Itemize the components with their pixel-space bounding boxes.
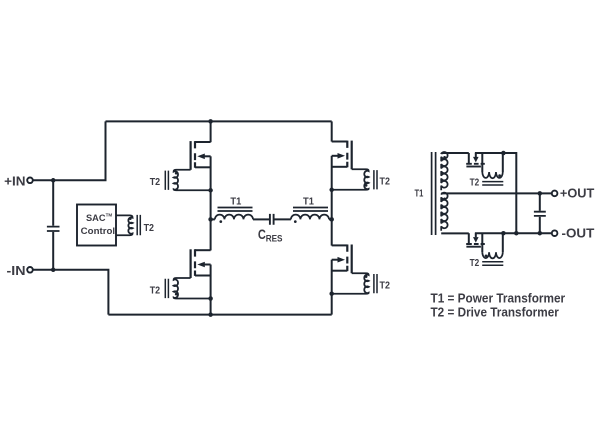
transformer T2 gate winding of Q1 (top-left) (165, 170, 210, 191)
wire top rail (106, 120, 332, 122)
transformer T1 secondary winding lower (441, 193, 447, 231)
wire secondary bottom tap (441, 232, 469, 234)
transformer T2 gate winding of Q3 (top-right) (332, 169, 377, 190)
wire centre tap to +OUT (441, 192, 552, 194)
svg-text:T1: T1 (230, 196, 241, 207)
transistor Q3 (top-right) MOSFET (332, 141, 352, 170)
transformer T2 gate winding of Q2 (bottom-left) (165, 278, 210, 299)
transformer T2 gate winding of Q6 (bottom sync rectifier) (482, 233, 503, 265)
svg-text:-IN: -IN (7, 263, 26, 278)
wire -IN to bottom-left corner (33, 270, 108, 315)
wire secondary top tap (441, 153, 469, 154)
junction Q1 (top-left) source / T2 return (208, 188, 213, 193)
capacitor input C (47, 180, 60, 269)
svg-text:-OUT: -OUT (562, 226, 595, 240)
transformer T1 primary right winding (291, 196, 332, 223)
capacitor output C (534, 193, 546, 233)
SAC control block U1 (77, 205, 116, 246)
svg-text:T2: T2 (150, 285, 160, 296)
label T2 (Q1 (top-left) drive) (150, 177, 160, 188)
transformer T1 primary left winding (211, 196, 253, 223)
junction top rail / Q1 drain (208, 119, 213, 124)
transformer T2 gate winding of Q4 (bottom-right) (332, 273, 377, 294)
wire Q3 source to right mid node (331, 156, 333, 220)
junction Q6 (bottom sync rectifier) wire / T2 return (501, 231, 506, 236)
wire Q3 drain from top rail (331, 121, 333, 141)
wire Q4 source to bottom rail (331, 260, 333, 315)
label legend line 2 (431, 305, 559, 320)
junction +IN / input cap (51, 178, 56, 183)
node -IN terminal (7, 263, 33, 278)
junction Q3 (top-right) source / T2 return (329, 188, 334, 193)
label T2 (Q3 (top-right) drive) (380, 177, 390, 188)
junction -OUT rail / output cap (538, 231, 543, 236)
junction Q4 (bottom-right) source / T2 return (329, 291, 334, 296)
junction bottom rail / Q2 source (208, 312, 213, 317)
svg-text:T2: T2 (150, 177, 160, 188)
junction node A (left mid) (208, 217, 213, 222)
wire T1 left to C_RES (253, 218, 269, 220)
label T2 (Q4 (bottom-right) drive) (380, 281, 390, 292)
node +IN terminal (4, 173, 33, 188)
node -OUT terminal (552, 226, 595, 240)
transistor Q4 (bottom-right) MOSFET (332, 245, 352, 274)
junction -IN / input cap (51, 268, 56, 273)
svg-text:T2: T2 (380, 281, 390, 292)
transformer T1 core (415, 152, 436, 235)
wire -OUT rail (475, 232, 552, 234)
svg-text:T2: T2 (470, 178, 480, 189)
wire C_RES to T1 right (275, 218, 291, 220)
label T2 (Q6 (bottom sync rectifier) drive) (470, 258, 480, 269)
wire Q1 drain from top rail (210, 121, 212, 142)
transistor Q6 (bottom sync rectifier) MOSFET (466, 233, 485, 247)
wire Q5 source to right drop (475, 153, 516, 233)
wire bottom rail (108, 314, 331, 316)
label legend line 1 (431, 290, 566, 305)
svg-text:SAC: SAC (86, 213, 106, 224)
junction Q5 (top sync rectifier) wire / T2 return (501, 151, 506, 156)
transformer T1 secondary winding upper (441, 152, 447, 190)
junction +OUT / output cap (538, 191, 543, 196)
svg-text:T2: T2 (380, 177, 390, 188)
transformer T2 primary winding (SAC drive) (116, 215, 154, 235)
svg-text:T2: T2 (470, 258, 480, 269)
wire Q2 source to bottom rail (210, 265, 212, 315)
svg-text:+IN: +IN (4, 173, 25, 188)
label T2 (Q2 (bottom-left) drive) (150, 285, 160, 296)
label T2 (Q5 (top sync rectifier) drive) (470, 178, 480, 189)
junction node B (right mid) (329, 217, 334, 222)
svg-text:T1: T1 (303, 196, 314, 207)
junction -OUT rail / right drop (514, 231, 519, 236)
svg-text:Control: Control (81, 226, 115, 237)
svg-text:T1 = Power Transformer: T1 = Power Transformer (431, 290, 566, 305)
transformer T2 gate winding of Q5 (top sync rectifier) (482, 153, 503, 185)
svg-text:T2 = Drive Transformer: T2 = Drive Transformer (431, 305, 559, 320)
capacitor C_RES (258, 214, 283, 244)
wire Q2 drain from node A (210, 219, 212, 250)
wire Q1 source to left mid node (210, 156, 212, 219)
wire Q4 drain from node B (331, 219, 333, 245)
transistor Q1 (top-left) MOSFET (191, 141, 211, 170)
junction Q2 (bottom-left) source / T2 return (208, 296, 213, 301)
transistor Q2 (bottom-left) MOSFET (191, 249, 211, 278)
svg-text:+OUT: +OUT (560, 187, 595, 201)
wire +IN to top-left corner (33, 121, 105, 180)
svg-text:TM: TM (106, 213, 113, 218)
svg-text:C: C (258, 226, 266, 242)
transistor Q5 (top sync rectifier) MOSFET (466, 153, 485, 167)
svg-text:RES: RES (266, 232, 283, 243)
svg-text:T2: T2 (144, 223, 154, 234)
svg-text:T1: T1 (415, 189, 424, 200)
node +OUT terminal (552, 187, 595, 201)
